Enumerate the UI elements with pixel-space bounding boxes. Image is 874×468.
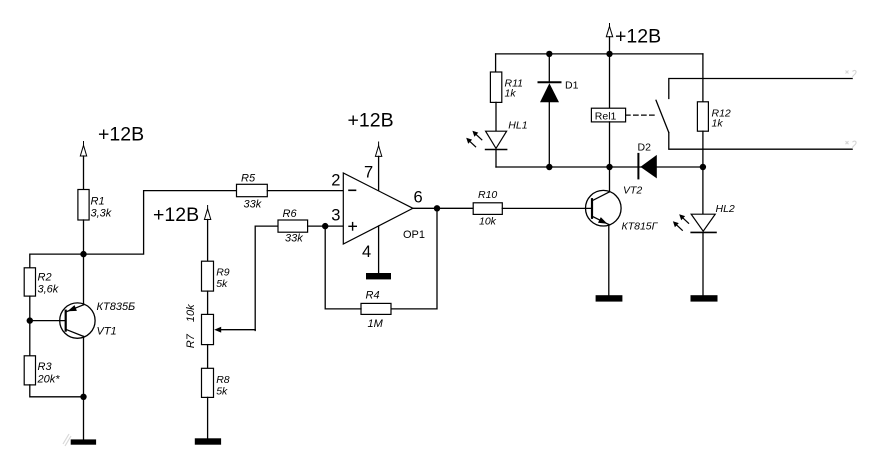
node A junction (80, 251, 86, 257)
svg-text:R4: R4 (366, 290, 380, 302)
wire bus to D1 (548, 54, 550, 82)
switch contact upper line (669, 79, 853, 99)
diode D2 (638, 154, 656, 179)
ground (HL2) (691, 295, 718, 301)
resistor R1 (78, 190, 89, 221)
svg-text:R2: R2 (38, 272, 52, 284)
svg-text:R3: R3 (38, 361, 53, 373)
diode D1 (539, 82, 561, 102)
wire R5 to pin 2 (267, 190, 343, 192)
wire VT2 emitter to ground (608, 225, 610, 296)
svg-text:D1: D1 (565, 79, 579, 91)
power arrow (top right +12V) (606, 24, 612, 37)
faint mark near left ground (63, 434, 71, 446)
feedback wire to node C (325, 226, 361, 309)
junction D1 bottom (546, 164, 552, 170)
svg-text:Rel1: Rel1 (595, 110, 617, 122)
svg-text:2: 2 (331, 171, 340, 189)
svg-text:HL1: HL1 (508, 119, 527, 131)
node C junction (plus input) (322, 223, 328, 229)
power arrow (middle +12V) (204, 206, 210, 220)
faint terminal mark lower line end (846, 141, 857, 149)
ground (VT2) (596, 295, 623, 301)
resistor R10 (473, 203, 502, 215)
wire arrow to R9 (207, 220, 209, 262)
wire base node to R3 (29, 321, 31, 356)
resistor R9 (202, 261, 214, 291)
wire R10 to VT2 base (502, 207, 592, 209)
wire arrow to bus (609, 37, 611, 54)
svg-text:10k: 10k (479, 216, 497, 228)
node B junction (80, 394, 86, 400)
wire node A left to R2 (30, 254, 84, 268)
resistor R12 (697, 102, 708, 131)
wire R2 to base node (29, 296, 31, 321)
node D junction (output) (434, 205, 440, 211)
power +12V label (op-amp) (348, 110, 394, 132)
wire R12 to bottom bus (702, 131, 704, 167)
svg-text:VT2: VT2 (623, 185, 642, 197)
pin 4 stub (378, 226, 380, 273)
wire R11 to HL1 (495, 102, 497, 131)
dashed link Rel1 to switch (626, 114, 658, 116)
LED HL1 (486, 131, 507, 149)
op-amp U1 triangle (343, 173, 413, 244)
resistor R8 (202, 368, 214, 397)
wire base node to VT1 base (30, 320, 66, 322)
svg-text:1M: 1M (368, 318, 384, 330)
svg-text:4: 4 (362, 243, 371, 261)
bottom bus (496, 166, 703, 168)
power +12V label (top right) (615, 26, 661, 48)
svg-text:3,3k: 3,3k (91, 208, 112, 220)
svg-text:+12В: +12В (348, 110, 394, 132)
svg-text:3,6k: 3,6k (38, 284, 59, 296)
svg-text:R7: R7 (185, 333, 197, 348)
svg-text:+12В: +12В (98, 124, 144, 146)
resistor R2 (24, 268, 35, 296)
svg-text:КТ815Г: КТ815Г (622, 221, 659, 233)
svg-text:6: 6 (414, 188, 423, 206)
wire arrow to R1 (83, 156, 85, 190)
transistor VT1 (60, 303, 95, 338)
svg-text:+12В: +12В (615, 26, 661, 48)
wire bus corner to R12 (702, 54, 704, 102)
svg-text:КТ835Б: КТ835Б (97, 301, 136, 313)
svg-text:R1: R1 (91, 196, 105, 208)
R7 wiper arrow (214, 327, 255, 333)
wire R8 to ground (207, 397, 209, 438)
wire bus to HL2 (702, 167, 704, 214)
resistor R5 (237, 184, 268, 196)
output wire pin 6 (413, 207, 473, 209)
HL1 light arrows (466, 131, 482, 147)
HL2 light arrows (673, 214, 689, 230)
svg-text:5k: 5k (216, 386, 228, 398)
junction R12 bottom (700, 164, 706, 170)
svg-text:R9: R9 (216, 266, 230, 278)
wire R7 to R8 (207, 345, 209, 369)
plus sign (349, 223, 356, 230)
minus sign (349, 189, 356, 191)
wire R1 to node A (83, 220, 85, 254)
faint terminal mark upper line end (846, 70, 857, 78)
ground (VT1) (71, 439, 96, 444)
svg-text:20k*: 20k* (37, 374, 61, 386)
svg-text:1k: 1k (712, 118, 724, 130)
resistor R6 (278, 220, 308, 232)
wire node A to VT1 emitter (83, 254, 85, 305)
switch contact lower line (669, 133, 853, 150)
svg-text:3: 3 (331, 207, 340, 225)
svg-text:OP1: OP1 (403, 229, 425, 241)
wire bus to R11 (495, 54, 497, 72)
wire wiper to R6 (255, 226, 278, 330)
resistor R4 (361, 303, 391, 314)
potentiometer R7 (202, 314, 214, 344)
wire R9 to R7 (207, 291, 209, 314)
wire HL2 to ground (702, 232, 704, 295)
svg-text:33k: 33k (244, 199, 262, 211)
switch blade (656, 100, 669, 132)
wire HL1 to bottom bus (495, 150, 497, 168)
wire R6 to pin 3 (308, 225, 344, 227)
junction relay top (606, 51, 612, 57)
wire Rel1 to bottom bus (609, 122, 611, 167)
svg-text:R10: R10 (478, 189, 497, 201)
pin 7 stub (378, 156, 380, 190)
power +12V label (middle) (153, 204, 199, 226)
wire bus to VT2 collector (609, 167, 611, 192)
svg-text:+12В: +12В (153, 204, 199, 226)
transistor VT2 (586, 190, 622, 226)
svg-text:7: 7 (364, 164, 373, 182)
svg-text:R6: R6 (283, 208, 298, 220)
pin labels (331, 164, 425, 261)
resistor R11 (490, 72, 501, 102)
power +12V label (left) (98, 124, 144, 146)
wire node A to op-amp minus input (84, 191, 237, 255)
svg-text:R5: R5 (241, 173, 256, 185)
svg-text:VT1: VT1 (97, 326, 117, 338)
ground (op-amp pin 4) (366, 273, 391, 279)
junction D1 top (546, 51, 552, 57)
feedback wire down (391, 208, 437, 309)
top +12V bus (496, 53, 703, 55)
power arrow (op-amp +12V) (375, 142, 381, 156)
ground (R8) (195, 438, 221, 444)
svg-text:R8: R8 (216, 374, 230, 386)
resistor R3 (24, 356, 35, 385)
LED HL2 (691, 214, 716, 232)
wire R3 to node B (30, 385, 84, 397)
svg-text:33k: 33k (285, 233, 303, 245)
relay Rel1 (591, 108, 625, 122)
svg-text:HL2: HL2 (716, 203, 735, 215)
junction relay bottom (606, 164, 612, 170)
svg-text:D2: D2 (638, 142, 652, 154)
wire VT1 collector down (83, 336, 85, 396)
svg-text:5k: 5k (216, 278, 228, 290)
power arrow (left +12V) (80, 142, 86, 157)
svg-text:1k: 1k (505, 87, 517, 99)
svg-text:10k: 10k (185, 304, 197, 322)
wire node B to ground (83, 397, 85, 440)
wire D1 to bottom bus (548, 102, 550, 167)
base node junction (27, 317, 33, 323)
wire bus to Rel1 (609, 54, 611, 108)
